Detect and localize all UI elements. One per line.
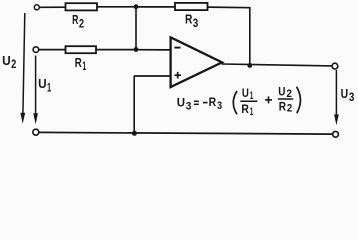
- wire: [39, 49, 65, 51]
- output terminal: [332, 63, 338, 69]
- voltage arrow U1: [35, 56, 37, 116]
- svg-text:3: 3: [186, 101, 192, 113]
- svg-text:2: 2: [11, 57, 16, 71]
- svg-text:R: R: [209, 97, 217, 109]
- wire: [97, 6, 136, 8]
- input terminal (U1 branch): [33, 47, 39, 53]
- svg-text:U: U: [242, 88, 249, 100]
- bottom-left terminal: [33, 129, 39, 135]
- formula: U3 = -R3 ( U1/R1 + U2/R2 ): [177, 86, 301, 118]
- svg-text:3: 3: [193, 16, 199, 30]
- wire (bottom rail): [39, 132, 333, 134]
- node: output junction: [247, 63, 252, 68]
- node: inverting input junction: [134, 47, 139, 52]
- svg-text:U: U: [2, 53, 11, 68]
- node: ground junction: [132, 131, 137, 136]
- voltage arrow U2: [23, 13, 25, 115]
- svg-text:R: R: [72, 12, 78, 27]
- wire: [249, 8, 251, 66]
- svg-text:2: 2: [287, 103, 292, 115]
- wire (op-amp output): [222, 64, 333, 66]
- resistor R3: [175, 3, 208, 10]
- wire: [135, 7, 137, 50]
- wire: [133, 76, 135, 133]
- formula equals sign: [194, 100, 199, 102]
- op-amp inverting input marker: [174, 47, 180, 49]
- formula opening parenthesis: [233, 91, 237, 114]
- voltage arrow U3: [335, 70, 337, 116]
- wire: [208, 6, 251, 9]
- svg-text:U: U: [177, 98, 185, 110]
- svg-text:U: U: [38, 76, 47, 91]
- wire (non-inverting input): [134, 75, 171, 77]
- svg-text:R: R: [241, 104, 249, 116]
- wire: [40, 6, 66, 8]
- input terminal (U2 branch): [34, 5, 39, 10]
- op-amp U1: [171, 37, 222, 87]
- svg-text:R: R: [279, 101, 287, 113]
- formula plus sign: [265, 99, 272, 101]
- wire: [96, 49, 136, 51]
- svg-text:U: U: [278, 86, 285, 98]
- resistor R2: [66, 3, 98, 10]
- svg-text:1: 1: [47, 80, 51, 94]
- svg-text:R: R: [185, 12, 192, 27]
- wire: [136, 6, 175, 8]
- svg-text:2: 2: [79, 17, 84, 31]
- svg-text:1: 1: [250, 106, 254, 118]
- node: summing junction (top): [134, 4, 139, 9]
- svg-text:3: 3: [349, 90, 355, 104]
- svg-text:1: 1: [82, 59, 86, 73]
- svg-text:U: U: [341, 86, 349, 101]
- formula closing parenthesis: [297, 87, 301, 113]
- svg-text:3: 3: [217, 100, 222, 112]
- op-amp non-inverting input marker: [175, 74, 182, 76]
- svg-text:R: R: [75, 55, 82, 70]
- resistor R1: [66, 46, 97, 53]
- formula minus sign: [203, 102, 208, 104]
- svg-text:1: 1: [250, 90, 254, 102]
- bottom-right terminal: [333, 131, 339, 137]
- wire: [138, 49, 171, 51]
